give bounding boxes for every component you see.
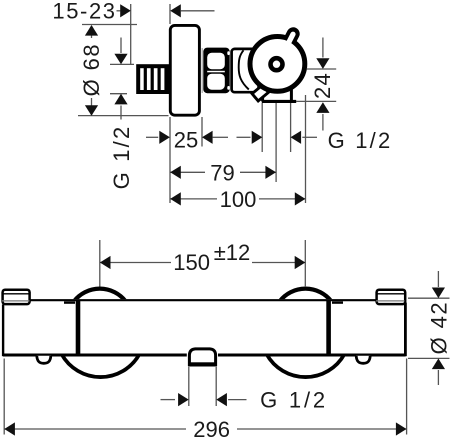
svg-text:Ø 42: Ø 42 xyxy=(426,301,450,354)
right union escutcheon xyxy=(376,290,405,304)
G12 bottom dim left segment xyxy=(161,399,176,401)
bar body fill xyxy=(2,299,407,356)
dim 25 left segment xyxy=(146,136,158,138)
dim 296 left arrowhead xyxy=(4,422,15,435)
outlet right extension line xyxy=(290,103,292,152)
G12 outlet right arrowhead xyxy=(291,131,302,144)
24 dim line upper xyxy=(322,38,324,58)
O42 down arrowhead xyxy=(432,288,445,299)
stub white channel xyxy=(285,34,293,50)
150 left extension line xyxy=(99,240,101,287)
svg-text:79: 79 xyxy=(210,160,234,185)
thread dim down arrowhead xyxy=(114,54,127,65)
G12 bottom right segment xyxy=(228,399,246,401)
outlet bottom band xyxy=(188,362,217,366)
G12 outlet dim left segment xyxy=(237,136,251,138)
thread dim line upper xyxy=(120,38,122,54)
right escutcheon bottom arc xyxy=(267,354,345,377)
wall flange body xyxy=(170,25,199,115)
left seam tick xyxy=(64,301,75,303)
dim 100 right segment xyxy=(259,198,305,200)
24 top extension line xyxy=(307,68,337,70)
24 bottom extension line xyxy=(296,100,336,102)
G12 bottom left arrowhead xyxy=(178,393,189,406)
outlet center line xyxy=(275,103,277,182)
dim 150 right arrowhead xyxy=(295,256,306,269)
svg-text:24: 24 xyxy=(310,72,335,99)
O42 up arrowhead xyxy=(432,359,445,370)
wall plane extension line xyxy=(130,4,132,64)
dim 15-23 line left segment xyxy=(117,10,121,12)
outlet left extension line xyxy=(261,103,263,152)
body inner line xyxy=(239,50,249,89)
svg-text:G 1/2: G 1/2 xyxy=(260,388,328,413)
right escutcheon circle xyxy=(280,289,331,301)
O68 up arrowhead xyxy=(85,25,98,36)
thread bottom extension line xyxy=(110,93,127,95)
bar bottom edge left part xyxy=(3,354,187,357)
flange-left extension line (top) xyxy=(169,4,171,24)
dim 15-23 left arrowhead xyxy=(120,4,131,17)
O68 bottom extension line xyxy=(78,115,169,117)
dim 15-23 line right segment xyxy=(181,10,215,12)
left escutcheon circle xyxy=(74,289,125,301)
O68 top extension line xyxy=(82,24,137,26)
bar top edge xyxy=(30,299,376,301)
thread dim line lower xyxy=(120,106,122,120)
svg-text:296: 296 xyxy=(193,417,230,442)
dim 100 left segment xyxy=(170,198,217,200)
flange-left extension line (bottom) xyxy=(169,117,171,203)
hose outlet nipple xyxy=(189,349,215,366)
knob center donut xyxy=(271,58,283,70)
bar left end edge xyxy=(2,305,4,357)
O68 down arrowhead xyxy=(85,105,98,116)
right seam tick xyxy=(332,301,343,303)
knob circle xyxy=(250,37,305,92)
dim 79 right segment xyxy=(240,171,276,173)
dim 25 left arrowhead xyxy=(159,131,170,144)
dim 15-23 right arrowhead xyxy=(170,4,181,17)
dim 150 line right segment xyxy=(252,262,305,264)
left check-valve bump xyxy=(37,356,51,364)
O68 dimension line upper segment xyxy=(91,26,93,38)
G12 outlet right segment xyxy=(302,136,317,138)
outlet left extension line (bottom view) xyxy=(188,367,190,406)
O42 dim line upper xyxy=(437,271,439,287)
24 dim line lower xyxy=(322,114,324,131)
150 right extension line xyxy=(304,240,306,287)
svg-text:25: 25 xyxy=(174,127,198,152)
thread dim up arrowhead xyxy=(114,94,127,105)
left union escutcheon xyxy=(2,290,30,304)
outlet diamond lower-right edge xyxy=(290,89,293,102)
dim 296 right arrowhead xyxy=(396,422,407,435)
bar bottom edge right part xyxy=(218,354,406,357)
svg-text:G 1/2: G 1/2 xyxy=(328,128,393,153)
svg-text:100: 100 xyxy=(220,187,257,212)
dim 150 left arrowhead xyxy=(100,256,111,269)
svg-text:G 1/2: G 1/2 xyxy=(109,125,134,190)
thread top extension line xyxy=(110,63,134,65)
gap shadow strip xyxy=(201,48,203,93)
outlet face xyxy=(262,100,296,103)
dim 100 right arrowhead xyxy=(295,192,306,205)
dim 79 left segment xyxy=(170,171,205,173)
G12 bottom right arrowhead xyxy=(216,393,227,406)
svg-text:±12: ±12 xyxy=(214,240,251,265)
dim 25 right arrowhead xyxy=(202,131,213,144)
left body seam xyxy=(76,301,81,355)
O42 top extension line xyxy=(408,297,450,299)
dim 296 line right segment xyxy=(237,428,406,430)
extension line at circle right (100 dim) xyxy=(305,95,307,203)
dim 100 left arrowhead xyxy=(170,192,181,205)
left escutcheon bottom arc xyxy=(62,354,140,377)
dim 79 left arrowhead xyxy=(170,166,181,179)
threaded inlet stub xyxy=(138,66,167,92)
right check-valve bump xyxy=(356,356,370,364)
bar right end edge xyxy=(404,303,407,357)
dim 296 line left segment xyxy=(4,428,186,430)
svg-text:150: 150 xyxy=(173,250,210,275)
G12 outlet left arrowhead xyxy=(252,131,263,144)
valve body square xyxy=(232,49,259,92)
hex union nut xyxy=(203,48,230,94)
dim 25 right segment xyxy=(213,136,228,138)
O68 dimension line lower segment xyxy=(91,98,93,115)
O42 dim line lower xyxy=(437,370,439,385)
svg-text:15-23: 15-23 xyxy=(52,0,116,24)
296 left extension line xyxy=(3,359,5,435)
O42 bottom extension line xyxy=(408,357,450,359)
45-degree lug tab xyxy=(252,85,268,101)
dim text 296 xyxy=(186,419,237,438)
right body seam xyxy=(326,301,331,355)
dim 79 right arrowhead xyxy=(265,166,276,179)
svg-text:Ø 68: Ø 68 xyxy=(79,43,104,96)
outlet right extension line (bottom view) xyxy=(215,367,217,406)
knob lever stub (black capsule) xyxy=(288,34,294,45)
24 up arrowhead xyxy=(316,102,329,113)
24 down arrowhead xyxy=(316,58,329,69)
outlet diamond lower-left edge xyxy=(261,97,264,102)
dim 150 line left segment xyxy=(100,262,171,264)
flange-right extension line (bottom) xyxy=(201,117,203,147)
296 right extension line xyxy=(406,359,408,435)
